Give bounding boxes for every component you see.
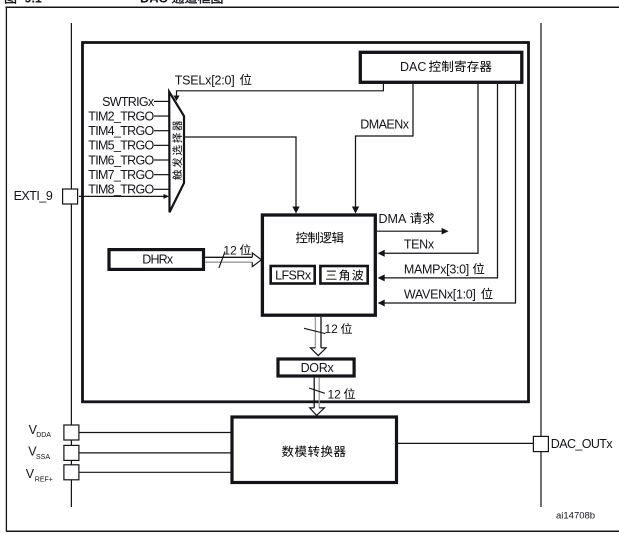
label MAMPx[3:0] [404, 262, 484, 276]
svg-text:EXTI_9: EXTI_9 [14, 189, 53, 203]
control logic box [262, 215, 375, 315]
svg-text:12: 12 [223, 243, 237, 257]
wire: VSSA supply [79, 452, 231, 454]
svg-text:12: 12 [325, 322, 339, 336]
svg-text:WAVENx[1:0]: WAVENx[1:0] [404, 287, 476, 301]
svg-text:DDA: DDA [36, 432, 51, 439]
svg-text:SSA: SSA [36, 454, 50, 461]
svg-text:9.1: 9.1 [25, 0, 42, 5]
pad EXTI_9 [63, 189, 78, 204]
wire: trigger mux output to control logic [184, 137, 300, 214]
wire: VREF+ supply [79, 471, 231, 473]
wire: TIM6_TRGO input stub [154, 159, 169, 161]
register DHRx box [109, 250, 204, 270]
svg-text:ai14708b: ai14708b [556, 511, 595, 522]
pad VSSA [64, 445, 79, 460]
wire: MAMPx[3:0] [378, 84, 498, 281]
svg-text:DHRx: DHRx [142, 252, 174, 266]
wire: WAVENx[1:0] [378, 84, 516, 307]
pad DAC_OUTx [533, 436, 548, 451]
label TSELx[2:0] [175, 73, 252, 87]
wire: right vertical net (DAC_OUTx column) [540, 23, 542, 507]
svg-text:TIM4_TRGO: TIM4_TRGO [88, 124, 154, 138]
pad VREF+ [64, 465, 79, 480]
wire: DMA request output [377, 228, 449, 235]
triangle wave box [320, 266, 367, 284]
register DORx box [278, 359, 354, 376]
wire: left vertical net (EXTI/VDDA column) [70, 23, 72, 507]
wire: TIM8_TRGO input stub [154, 188, 169, 190]
wire: DAC output to pad [397, 442, 534, 444]
svg-text:DAC: DAC [140, 0, 168, 5]
label VSSA [28, 445, 50, 461]
trigger selector mux [169, 92, 184, 213]
wire: TSELx select from control register to trigger mux [173, 84, 383, 101]
svg-text:DMA: DMA [379, 212, 407, 226]
digital-to-analog converter box [232, 417, 397, 483]
label DMA request [379, 212, 435, 226]
label VREF+ [26, 467, 53, 483]
wire: TIM7_TRGO input stub [154, 174, 169, 176]
bus: DHRx to control logic (12-bit) [205, 252, 261, 268]
register LFSRx box [271, 266, 315, 284]
wire: VDDA supply [79, 432, 231, 434]
svg-text:DORx: DORx [301, 361, 335, 375]
label 12-bit (DORx input bus) [325, 322, 352, 336]
wire: DMAENx from control register to control logic [352, 84, 413, 214]
svg-text:SWTRIGx: SWTRIGx [102, 95, 155, 109]
svg-text:DAC: DAC [400, 60, 426, 74]
label 12-bit (DHRx bus) [223, 243, 250, 257]
wire: SWTRIGx input stub [154, 100, 169, 102]
label VDDA [29, 423, 52, 439]
DAC control register box [360, 52, 522, 82]
svg-text:DAC_OUTx: DAC_OUTx [551, 437, 614, 451]
svg-text:TENx: TENx [404, 237, 435, 251]
svg-text:TIM8_TRGO: TIM8_TRGO [88, 183, 154, 197]
svg-text:V: V [26, 467, 35, 481]
pad VDDA [64, 425, 79, 440]
svg-text:LFSRx: LFSRx [275, 269, 312, 283]
svg-text:TIM2_TRGO: TIM2_TRGO [88, 109, 154, 123]
svg-text:TIM7_TRGO: TIM7_TRGO [88, 168, 154, 182]
svg-text:REF+: REF+ [35, 477, 53, 484]
svg-text:MAMPx[3:0]: MAMPx[3:0] [404, 262, 469, 276]
svg-text:DMAENx: DMAENx [360, 118, 409, 132]
bus: control logic to DORx (12-bit) [304, 317, 326, 356]
label 12-bit (converter input bus) [328, 387, 355, 401]
svg-text:TIM6_TRGO: TIM6_TRGO [88, 153, 154, 167]
wire: EXTI_9 to trigger mux [79, 194, 169, 199]
svg-text:TSELx[2:0]: TSELx[2:0] [175, 73, 235, 87]
svg-text:12: 12 [328, 387, 342, 401]
figure title (clipped) [5, 0, 222, 5]
wire: TIM5_TRGO input stub [154, 144, 169, 146]
label WAVENx[1:0] [404, 287, 493, 301]
DAC peripheral boundary box [83, 43, 529, 402]
svg-text:TIM5_TRGO: TIM5_TRGO [88, 139, 154, 153]
bus: DORx to converter (12-bit) [309, 378, 325, 416]
wire: TENx enable [378, 84, 478, 257]
wire: TIM4_TRGO input stub [154, 130, 169, 132]
wire: TIM2_TRGO input stub [154, 115, 169, 117]
